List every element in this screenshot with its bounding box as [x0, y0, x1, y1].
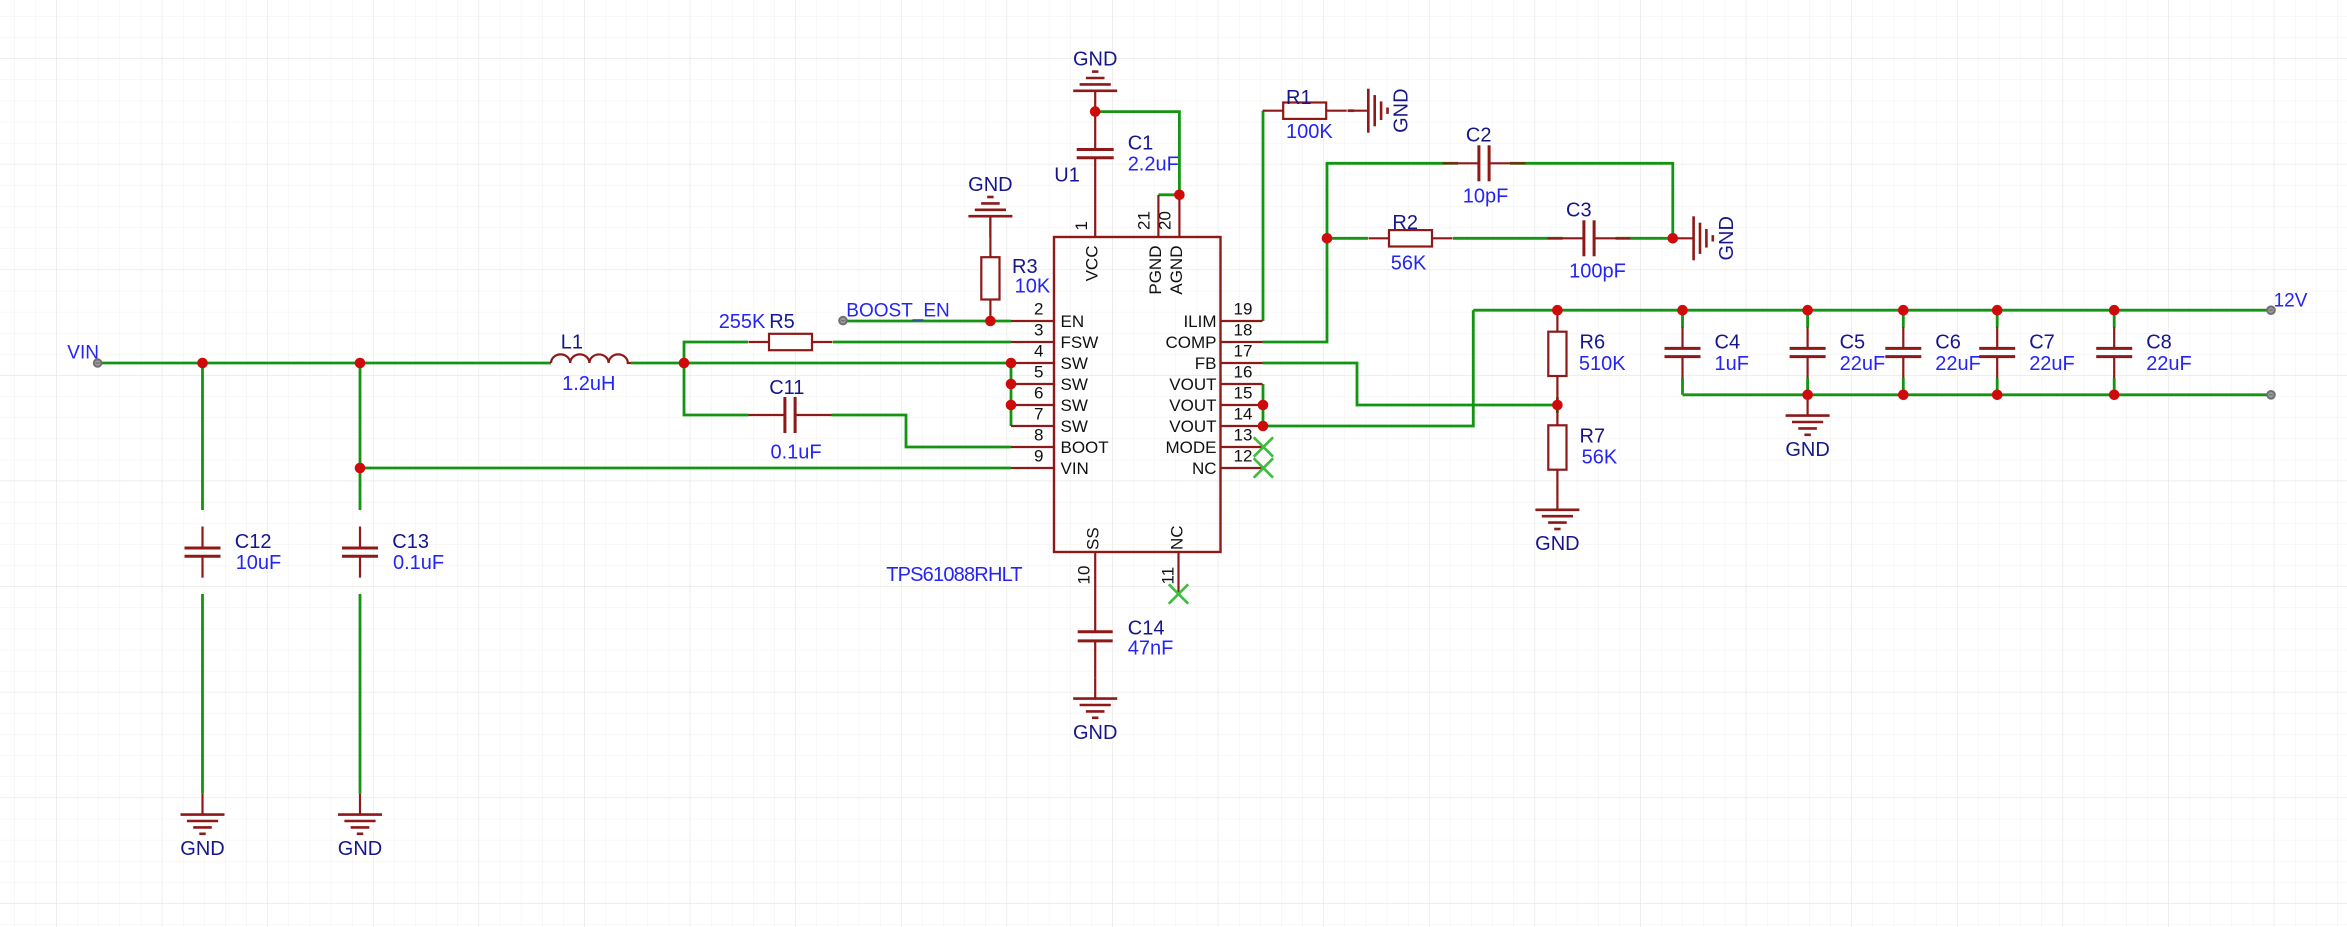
junction C1 top — [1090, 106, 1101, 117]
wire FB to divider — [1263, 363, 1558, 405]
svg-text:VIN: VIN — [67, 343, 99, 364]
wire C4 top — [1681, 310, 1684, 327]
capacitor C1 — [1077, 112, 1114, 195]
svg-text:10pF: 10pF — [1463, 185, 1509, 207]
svg-text:MODE: MODE — [1166, 438, 1217, 457]
wire BOOST_EN to EN pin 2 — [846, 320, 1011, 323]
svg-text:5: 5 — [1034, 363, 1043, 382]
capacitor C3 — [1548, 220, 1631, 256]
wire C1 top to AGND branch — [1095, 112, 1179, 195]
svg-text:COMP: COMP — [1166, 333, 1217, 352]
wire R5 branch — [684, 342, 748, 363]
ground below C14 — [1073, 678, 1117, 744]
ground above C1 — [1073, 49, 1117, 112]
junction FB divider node — [1552, 400, 1563, 411]
svg-text:C11: C11 — [769, 377, 804, 399]
svg-text:GND: GND — [1391, 88, 1413, 132]
svg-text:1: 1 — [1072, 221, 1091, 230]
wire C13 to GND — [359, 594, 362, 794]
svg-text:FB: FB — [1195, 354, 1217, 373]
svg-text:22uF: 22uF — [1935, 353, 1981, 375]
junction VOUT pin 15 — [1258, 400, 1269, 411]
wire C5 bottom — [1806, 378, 1809, 395]
pin 21 PGND — [1134, 195, 1165, 295]
svg-text:1uF: 1uF — [1715, 353, 1749, 375]
junction SW pin 4 — [1006, 358, 1017, 369]
svg-text:VIN: VIN — [1061, 459, 1089, 478]
wire PGND pin 21 link — [1158, 193, 1179, 196]
svg-text:VOUT: VOUT — [1169, 396, 1216, 415]
pin 19 ILIM — [1183, 300, 1262, 332]
junction rail C7 — [1992, 305, 2003, 316]
svg-text:EN: EN — [1061, 312, 1085, 331]
wire C7 bottom — [1996, 378, 1999, 395]
wire C6 top — [1902, 310, 1905, 327]
pin 1 VCC — [1072, 195, 1102, 281]
svg-text:16: 16 — [1234, 363, 1253, 382]
capacitor C7 — [1979, 327, 2015, 378]
junction rail C6 — [1898, 305, 1909, 316]
wire VOUT pins 16-14 vertical — [1262, 384, 1265, 426]
svg-text:10: 10 — [1075, 566, 1094, 585]
pin 4 SW — [1011, 342, 1088, 374]
ground below C5 — [1785, 395, 1829, 461]
wire R2 to C3 — [1453, 237, 1563, 240]
svg-text:NC: NC — [1167, 525, 1186, 550]
pin 3 FSW — [1011, 321, 1098, 353]
port output return — [2267, 391, 2275, 399]
ground right of C3 — [1673, 216, 1738, 260]
svg-text:C3: C3 — [1566, 199, 1592, 221]
svg-text:GND: GND — [1535, 533, 1579, 555]
svg-text:C6: C6 — [1935, 332, 1961, 354]
port 12V — [2267, 306, 2275, 314]
capacitor C2 — [1443, 145, 1526, 181]
pin 13 MODE — [1166, 426, 1263, 458]
no-connect pin 12 NC — [1254, 458, 1273, 477]
svg-text:L1: L1 — [561, 332, 583, 354]
svg-text:NC: NC — [1192, 459, 1217, 478]
pin 14 VOUT — [1169, 405, 1262, 437]
junction rail C8 — [2109, 305, 2120, 316]
wire output bottom rail — [1683, 393, 2272, 396]
svg-text:19: 19 — [1234, 300, 1253, 319]
svg-text:C14: C14 — [1128, 617, 1165, 639]
svg-text:1.2uH: 1.2uH — [562, 373, 615, 395]
wire C2 to C3 junction — [1510, 163, 1673, 238]
svg-text:C7: C7 — [2029, 332, 2055, 354]
wire C7 top — [1996, 310, 1999, 327]
junction EN at R3 — [985, 316, 996, 327]
svg-text:SW: SW — [1061, 375, 1088, 394]
svg-text:6: 6 — [1034, 384, 1043, 403]
svg-text:GND: GND — [1716, 216, 1738, 260]
svg-text:0.1uF: 0.1uF — [771, 442, 822, 464]
svg-text:2.2uF: 2.2uF — [1128, 153, 1179, 175]
svg-text:13: 13 — [1234, 426, 1253, 445]
svg-text:9: 9 — [1034, 447, 1043, 466]
wire L1 to SW junction — [631, 362, 684, 365]
svg-text:12: 12 — [1234, 447, 1253, 466]
junction bottom rail C5 — [1802, 390, 1813, 401]
capacitor C14 — [1078, 594, 1113, 678]
junction VIN at C12 — [197, 358, 208, 369]
svg-text:56K: 56K — [1391, 253, 1427, 275]
wire C12 drop — [201, 363, 204, 510]
junction C3 right — [1668, 233, 1679, 244]
pin 15 VOUT — [1169, 384, 1262, 416]
resistor R2 — [1369, 230, 1453, 246]
svg-text:255K: 255K — [719, 311, 766, 333]
port VIN — [94, 359, 102, 367]
wire C13 drop — [359, 363, 362, 510]
svg-text:14: 14 — [1234, 405, 1253, 424]
svg-text:GND: GND — [968, 174, 1012, 196]
junction rail R6 — [1552, 305, 1563, 316]
wire R6 to R7 node — [1556, 397, 1559, 413]
svg-text:100K: 100K — [1286, 121, 1333, 143]
svg-text:C5: C5 — [1840, 332, 1866, 354]
no-connect pin 11 — [1169, 584, 1188, 603]
pin 8 BOOT — [1011, 426, 1109, 458]
svg-text:BOOST_EN: BOOST_EN — [846, 301, 949, 322]
resistor R5 — [749, 334, 833, 350]
svg-text:SW: SW — [1061, 417, 1088, 436]
svg-text:510K: 510K — [1579, 353, 1626, 375]
pin 5 SW — [1011, 363, 1088, 395]
wire C8 top — [2113, 310, 2116, 327]
pin 10 SS — [1075, 527, 1103, 594]
capacitor C12 — [185, 527, 221, 578]
svg-text:21: 21 — [1134, 211, 1153, 230]
resistor R1 — [1263, 103, 1347, 119]
svg-text:ILIM: ILIM — [1183, 312, 1216, 331]
wire COMP to C2 riser — [1263, 163, 1459, 342]
svg-text:VOUT: VOUT — [1169, 417, 1216, 436]
svg-text:11: 11 — [1158, 567, 1177, 585]
resistor R7 — [1548, 405, 1566, 489]
junction L1 node — [679, 358, 690, 369]
svg-text:4: 4 — [1034, 342, 1043, 361]
pin 2 EN — [1011, 300, 1084, 332]
junction AGND pin 20 — [1174, 190, 1185, 201]
junction bottom rail C8 — [2109, 390, 2120, 401]
wire C3 to GND junction — [1616, 237, 1673, 240]
svg-text:8: 8 — [1034, 426, 1043, 445]
junction COMP at R2 — [1322, 233, 1333, 244]
svg-text:FSW: FSW — [1061, 333, 1099, 352]
wire C11 to BOOT pin 8 — [832, 415, 1012, 447]
svg-text:GND: GND — [1073, 722, 1117, 744]
pin 16 VOUT — [1169, 363, 1262, 395]
svg-text:PGND: PGND — [1146, 246, 1165, 295]
pin 6 SW — [1011, 384, 1088, 416]
junction bottom rail C6 — [1898, 390, 1909, 401]
svg-text:18: 18 — [1234, 321, 1253, 340]
wire C4 bottom — [1681, 378, 1684, 395]
pin 20 AGND — [1155, 195, 1186, 295]
junction rail C4 — [1677, 305, 1688, 316]
ground below R7 — [1535, 489, 1579, 555]
ground below C13 — [338, 794, 382, 860]
pin 9 VIN — [1011, 447, 1089, 479]
resistor R6 — [1548, 311, 1566, 405]
svg-text:10uF: 10uF — [236, 552, 282, 574]
svg-text:22uF: 22uF — [1840, 353, 1886, 375]
wire R6 top — [1556, 310, 1559, 314]
junction SW pin 6 — [1006, 400, 1017, 411]
wire SW pins 4-7 vertical — [1010, 363, 1013, 426]
wire R2 branch — [1327, 237, 1368, 240]
junction SW pin 5 — [1006, 379, 1017, 390]
pin 11 NC — [1158, 525, 1186, 594]
wire VIN pin 9 — [360, 467, 1011, 470]
wire C6 bottom — [1902, 378, 1905, 395]
svg-text:R5: R5 — [769, 311, 795, 333]
svg-text:GND: GND — [1073, 49, 1117, 71]
svg-text:22uF: 22uF — [2029, 353, 2075, 375]
svg-text:VOUT: VOUT — [1169, 375, 1216, 394]
wire C11 branch — [684, 363, 749, 415]
svg-text:C13: C13 — [392, 531, 429, 553]
svg-text:R2: R2 — [1392, 212, 1418, 234]
capacitor C5 — [1790, 327, 1826, 378]
svg-text:3: 3 — [1034, 321, 1043, 340]
pin 17 FB — [1195, 342, 1263, 374]
capacitor C8 — [2096, 327, 2132, 378]
wire R5 to FSW pin 3 — [833, 341, 1011, 344]
svg-text:10K: 10K — [1015, 276, 1051, 298]
svg-text:20: 20 — [1155, 211, 1174, 230]
svg-text:12V: 12V — [2274, 291, 2308, 312]
svg-text:47nF: 47nF — [1128, 638, 1174, 660]
capacitor C4 — [1665, 327, 1701, 378]
svg-text:100pF: 100pF — [1569, 260, 1626, 282]
pin 18 COMP — [1166, 321, 1263, 353]
resistor R3 — [981, 216, 999, 321]
svg-text:56K: 56K — [1582, 447, 1618, 469]
svg-text:C8: C8 — [2146, 332, 2172, 354]
svg-text:C12: C12 — [235, 531, 272, 553]
inductor L1 — [551, 354, 631, 363]
svg-text:VCC: VCC — [1083, 246, 1102, 282]
svg-text:0.1uF: 0.1uF — [393, 552, 444, 574]
svg-text:SS: SS — [1084, 527, 1103, 550]
svg-text:R1: R1 — [1286, 87, 1312, 109]
svg-text:SW: SW — [1061, 396, 1088, 415]
capacitor C13 — [342, 527, 378, 578]
junction VIN pin 9 branch — [355, 463, 366, 474]
wire R1 to GND — [1348, 109, 1355, 112]
svg-text:GND: GND — [1785, 439, 1829, 461]
svg-text:C4: C4 — [1715, 332, 1741, 354]
svg-text:AGND: AGND — [1167, 246, 1186, 295]
junction bottom rail C7 — [1992, 390, 2003, 401]
wire C8 bottom — [2113, 378, 2116, 395]
svg-text:GND: GND — [180, 838, 224, 860]
op-amp U1 body TPS61088RHLT — [1054, 237, 1221, 552]
svg-text:17: 17 — [1234, 342, 1253, 361]
wire ILIM vertical to R1 — [1262, 111, 1265, 321]
wire C12 to GND — [201, 594, 204, 794]
wire VOUT to 12V riser — [1263, 310, 1473, 426]
ground below C12 — [180, 794, 224, 860]
junction VOUT pin 14 — [1258, 421, 1269, 432]
svg-text:C1: C1 — [1128, 133, 1154, 155]
ground above R3 — [968, 174, 1012, 237]
pin 7 SW — [1011, 405, 1088, 437]
ground right of R1 — [1348, 88, 1413, 132]
svg-text:U1: U1 — [1054, 165, 1080, 187]
capacitor C11 — [749, 397, 832, 433]
svg-text:2: 2 — [1034, 300, 1043, 319]
svg-text:SW: SW — [1061, 354, 1088, 373]
svg-text:R6: R6 — [1580, 332, 1606, 354]
capacitor C6 — [1885, 327, 1921, 378]
svg-text:GND: GND — [338, 838, 382, 860]
svg-text:BOOT: BOOT — [1061, 438, 1109, 457]
wire SW junction to pin 4 — [684, 362, 1011, 365]
svg-text:22uF: 22uF — [2146, 353, 2192, 375]
svg-text:C2: C2 — [1466, 124, 1492, 146]
svg-text:15: 15 — [1234, 384, 1253, 403]
junction VIN at C13 — [355, 358, 366, 369]
no-connect pin 13 MODE — [1254, 437, 1273, 456]
wire 12V rail — [1473, 309, 2271, 312]
svg-text:7: 7 — [1034, 405, 1043, 424]
wire VIN from port to L1 — [99, 362, 551, 365]
junction rail C5 — [1802, 305, 1813, 316]
svg-text:R7: R7 — [1580, 425, 1606, 447]
pin 12 NC — [1192, 447, 1263, 479]
wire C5 top — [1806, 310, 1809, 327]
port BOOST_EN — [839, 317, 847, 325]
svg-text:TPS61088RHLT: TPS61088RHLT — [886, 564, 1022, 586]
